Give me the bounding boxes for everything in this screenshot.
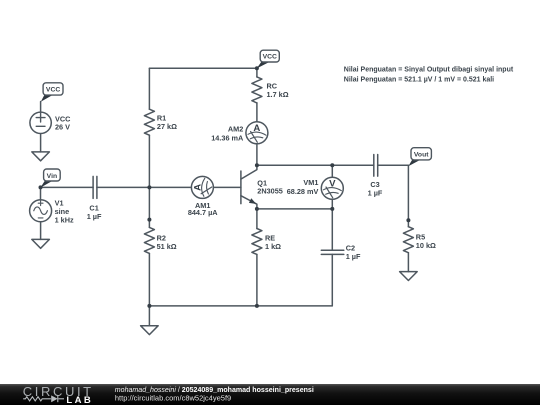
svg-text:http://circuitlab.com/c8w52jc4: http://circuitlab.com/c8w52jc4ye5f9 — [115, 393, 231, 402]
wire C1 to node — [97, 186, 191, 188]
node bottom rail RE — [255, 304, 259, 308]
ammeter AM2 — [246, 122, 268, 144]
capacitor C1 — [93, 176, 97, 198]
svg-text:1 µF: 1 µF — [368, 189, 383, 198]
wire V1 bottom lead — [40, 222, 42, 240]
wire collector rail — [257, 164, 374, 166]
wire R2 top lead — [148, 187, 150, 227]
wire AM1 to base — [213, 186, 241, 188]
node VM1 bottom — [330, 207, 334, 211]
ground G4 — [400, 272, 418, 281]
svg-text:1 kΩ: 1 kΩ — [265, 242, 281, 251]
node R5 top — [406, 218, 410, 222]
svg-text:Nilai Penguatan = 521.1 µV / 1: Nilai Penguatan = 521.1 µV / 1 mV = 0.52… — [344, 77, 494, 84]
wire RE bottom lead — [256, 255, 258, 306]
flag Vin — [41, 169, 61, 188]
node R2 top — [147, 218, 151, 222]
svg-text:26 V: 26 V — [55, 122, 70, 131]
svg-text:27 kΩ: 27 kΩ — [157, 122, 177, 131]
capacitor C3 — [374, 155, 378, 177]
wire emitter rail — [257, 208, 332, 210]
annotation text — [344, 67, 514, 84]
flag VCC top-right — [257, 50, 280, 68]
svg-text:AM2: AM2 — [228, 125, 243, 134]
svg-text:10 kΩ: 10 kΩ — [416, 241, 436, 250]
node Vin junction — [39, 185, 43, 189]
wire RE top lead — [256, 209, 258, 229]
svg-text:Vout: Vout — [414, 151, 429, 158]
node VCC top — [255, 66, 259, 70]
svg-text:1 kHz: 1 kHz — [55, 215, 74, 224]
ground G3 — [141, 326, 159, 335]
wire bottom rail — [149, 254, 332, 306]
wire VCC flag to source — [40, 102, 42, 113]
resistor R5 — [403, 227, 413, 253]
node emitter — [255, 207, 259, 211]
svg-text:14.36 mA: 14.36 mA — [211, 133, 244, 142]
wire R2 bottom lead — [148, 253, 150, 306]
wire VM1 node to C2 — [331, 209, 333, 250]
resistor R2 — [144, 227, 154, 253]
wire R5 to ground — [407, 253, 409, 272]
wire AM2 to collector node — [256, 144, 258, 166]
node base junction — [147, 185, 151, 189]
svg-text:2N3055: 2N3055 — [257, 186, 283, 195]
voltage source V1 sine — [30, 200, 52, 222]
transistor Q1 — [241, 165, 257, 209]
svg-text:Vin: Vin — [47, 173, 57, 180]
svg-text:1.7 kΩ: 1.7 kΩ — [267, 90, 289, 99]
flag VCC top-left — [41, 83, 63, 102]
wire V1 top lead — [40, 187, 42, 199]
wire Vout down to R5 — [407, 165, 409, 226]
flag Vout — [408, 148, 431, 167]
svg-text:Nilai Penguatan = Sinyal Outpu: Nilai Penguatan = Sinyal Output dibagi s… — [344, 67, 514, 74]
ground G1 — [32, 152, 50, 161]
ammeter AM1 — [191, 176, 213, 198]
wire RC top lead — [256, 68, 258, 77]
wire RC to AM2 — [256, 103, 258, 122]
wire R1 top lead — [148, 68, 150, 109]
logo circuit squiggle — [23, 395, 58, 402]
node bottom rail left — [147, 304, 151, 308]
ground G2 — [32, 239, 50, 248]
capacitor C2 — [321, 250, 344, 254]
wire VM1 top lead — [331, 165, 333, 177]
node dots — [39, 66, 411, 308]
svg-text:VCC: VCC — [263, 54, 277, 61]
node collector — [255, 163, 259, 167]
resistor RE — [252, 229, 262, 255]
svg-text:1 µF: 1 µF — [346, 252, 361, 261]
svg-text:51 kΩ: 51 kΩ — [157, 242, 177, 251]
wire VM1 bottom lead — [331, 199, 333, 209]
wire bottom rail ground stem — [148, 306, 150, 326]
svg-text:VCC: VCC — [46, 87, 60, 94]
resistor RC — [252, 77, 262, 103]
wire top rail — [149, 67, 257, 69]
resistor R1 — [144, 109, 154, 135]
wire C3 to Vout — [378, 164, 409, 166]
voltmeter VM1 — [321, 177, 343, 199]
wire R1 bottom lead — [148, 135, 150, 187]
wire input rail left — [41, 186, 94, 188]
svg-text:LAB: LAB — [66, 395, 93, 405]
wire VCC source to ground — [40, 134, 42, 152]
voltage source VCC — [30, 112, 51, 133]
svg-text:1 µF: 1 µF — [87, 212, 102, 221]
node VM1 top — [330, 163, 334, 167]
svg-text:68.28 mV: 68.28 mV — [287, 187, 319, 196]
svg-text:844.7 µA: 844.7 µA — [188, 208, 218, 217]
